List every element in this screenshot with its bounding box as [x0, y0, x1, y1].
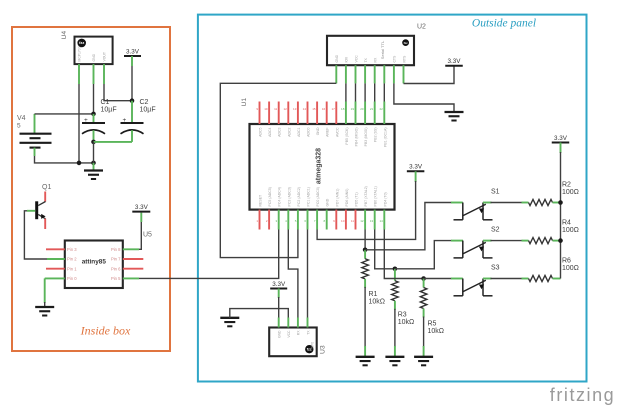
svg-text:R2: R2	[562, 182, 571, 189]
wire U2 pin2 to U1	[345, 83, 347, 101]
svg-text:+: +	[84, 117, 88, 124]
svg-text:15: 15	[312, 107, 316, 111]
wire U5 pin8 to 3.3V	[139, 214, 141, 249]
U1 top pin 2 (nc)	[268, 102, 270, 125]
svg-text:R3: R3	[398, 312, 407, 319]
svg-text:GND: GND	[335, 54, 339, 62]
U1 top pin 8 (nc)	[326, 102, 328, 125]
U1 bottom pin 12	[364, 210, 366, 230]
U1 top pin 11	[355, 102, 357, 125]
resistor R6 100 ohm	[529, 258, 579, 282]
svg-text:fritzing: fritzing	[550, 385, 615, 405]
wire U5 pin5 to U1 (serial)	[139, 230, 279, 279]
junction gnd rail / U4 pin1	[77, 161, 82, 166]
svg-text:C2: C2	[140, 99, 149, 106]
wire V4 plus to VIN node	[35, 113, 94, 115]
U1 top pin 12	[364, 102, 366, 125]
resistor R5 10k	[420, 279, 444, 336]
U1 top pin 13	[374, 102, 376, 125]
svg-text:ADC1: ADC1	[297, 127, 301, 136]
wire U1 pin to R3 row	[375, 230, 395, 269]
U3 pin 3 lead	[297, 318, 299, 328]
IC U1 atmega328	[250, 124, 395, 210]
svg-text:U4: U4	[61, 31, 68, 40]
IC U3	[269, 328, 317, 357]
wire U5 pin4 to ground	[44, 278, 46, 303]
wire U1 pin to R1	[364, 230, 366, 250]
U1 bottom pin 1	[259, 210, 261, 230]
svg-text:10kΩ: 10kΩ	[369, 299, 386, 306]
svg-text:AVCC: AVCC	[335, 127, 339, 137]
junction C2 top	[130, 98, 135, 103]
U1 bottom pin 8	[326, 210, 328, 230]
svg-text:12: 12	[283, 107, 287, 111]
svg-text:AREF: AREF	[326, 128, 330, 137]
svg-text:TX: TX	[364, 57, 368, 62]
svg-text:3.3V: 3.3V	[126, 48, 140, 55]
voltage regulator U4	[75, 37, 113, 65]
svg-text:19: 19	[351, 107, 355, 111]
svg-text:PD5 (T1): PD5 (T1)	[355, 192, 359, 206]
wire U2 pin7 to ground	[394, 83, 454, 112]
svg-text:PB7 (XTAL2): PB7 (XTAL2)	[364, 186, 368, 206]
U1 top pin 7 (nc)	[316, 102, 318, 125]
wire U2 pin1 to U1 serial	[220, 83, 336, 257]
svg-text:10µF: 10µF	[101, 106, 117, 113]
wire gnd stub	[93, 163, 95, 171]
U1 bottom pin 6	[307, 210, 309, 230]
U4 pin 2 lead	[93, 64, 95, 84]
svg-text:PD4 (T0): PD4 (T0)	[383, 192, 387, 206]
svg-text:RX: RX	[297, 330, 301, 335]
svg-text:PB5 (SCK): PB5 (SCK)	[345, 128, 349, 145]
IC U5 attiny85	[65, 241, 123, 289]
U1 top pin 5 (nc)	[297, 102, 299, 125]
wire U4 pin2 to node VIN	[93, 84, 95, 114]
wire 3.3V rail	[560, 143, 562, 154]
wire U1 pin to U3 pin3	[288, 230, 298, 318]
svg-text:+: +	[123, 117, 127, 124]
svg-text:R6: R6	[562, 258, 571, 265]
U1 top pin 4 (nc)	[287, 102, 289, 125]
svg-text:PD6 (AIN0): PD6 (AIN0)	[345, 189, 349, 207]
svg-text:ADC4: ADC4	[268, 127, 272, 136]
lead C2 top	[131, 101, 133, 123]
svg-text:Serial TTL: Serial TTL	[380, 40, 385, 59]
svg-text:14: 14	[303, 107, 307, 111]
U1 bottom pin 2	[268, 210, 270, 230]
wire 3.3V to U3 pin1	[278, 289, 280, 299]
switch S2	[454, 227, 500, 258]
svg-text:PC0 (ADC0): PC0 (ADC0)	[316, 187, 320, 206]
wire U4 pin1 to gnd rail	[78, 84, 80, 163]
wire U2 pin3 to U1	[355, 83, 357, 101]
U5 pin7 lead (nc)	[123, 258, 144, 260]
U1 bottom pin 5	[297, 210, 299, 230]
svg-text:U3: U3	[320, 345, 327, 354]
svg-text:PC1 (ADC1): PC1 (ADC1)	[307, 187, 311, 206]
svg-text:Outside panel: Outside panel	[472, 18, 536, 30]
power 3.3V (regulator output)	[124, 48, 141, 56]
ground (R1)	[356, 357, 375, 366]
svg-text:Inside box: Inside box	[80, 324, 131, 338]
wire 3.3V to U1 pin	[415, 171, 417, 182]
junction rail R2	[558, 200, 563, 205]
svg-text:20: 20	[360, 107, 364, 111]
svg-text:Pin 2: Pin 2	[67, 257, 77, 262]
ground (R3)	[385, 357, 404, 366]
svg-text:CTS: CTS	[393, 55, 397, 63]
svg-text:attiny85: attiny85	[82, 258, 107, 265]
svg-text:Pin 3: Pin 3	[67, 247, 77, 252]
svg-text:17: 17	[331, 107, 335, 111]
resistor R4 100 ohm	[529, 220, 579, 244]
svg-text:PB2 (SS): PB2 (SS)	[374, 128, 378, 143]
junction C1 bottom	[91, 140, 96, 145]
U1 bottom pin 13	[374, 210, 376, 230]
wire R1 node to S1	[365, 203, 452, 250]
svg-text:14: 14	[379, 219, 383, 223]
wire R5 to ground	[423, 317, 425, 348]
svg-text:TX: TX	[306, 330, 310, 335]
U1 bottom pin 9	[335, 210, 337, 230]
svg-text:100Ω: 100Ω	[562, 265, 579, 272]
U5 pin1 lead (nc)	[46, 248, 65, 250]
svg-text:10: 10	[264, 107, 268, 111]
U2 pin 6 lead	[383, 65, 385, 83]
svg-text:3.3V: 3.3V	[409, 164, 423, 171]
svg-text:U1: U1	[241, 98, 248, 107]
svg-text:GND: GND	[278, 330, 282, 338]
svg-text:10kΩ: 10kΩ	[428, 328, 445, 335]
battery V4	[17, 114, 52, 156]
ground (U3)	[220, 318, 239, 327]
wire U2 pin6 to U1	[383, 83, 385, 101]
U2 pin 8 lead	[403, 65, 405, 83]
outside panel frame	[198, 15, 587, 382]
U1 top pin 10	[345, 102, 347, 125]
U1 top pin 1 (nc)	[259, 102, 261, 125]
svg-text:5: 5	[17, 123, 21, 130]
inside box frame	[12, 27, 170, 351]
ground (U2)	[445, 112, 464, 121]
U1 bottom pin 7	[316, 210, 318, 230]
capacitor C2 10uF	[121, 99, 156, 142]
svg-text:11: 11	[274, 107, 277, 111]
svg-text:PC4 (ADC4): PC4 (ADC4)	[278, 187, 282, 206]
svg-text:R1: R1	[369, 291, 378, 298]
U2 pin 3 lead	[355, 65, 357, 83]
U1 top pin 9 (nc)	[335, 102, 337, 125]
U2 pin 5 lead	[374, 65, 376, 83]
svg-text:R5: R5	[428, 321, 437, 328]
U5 pin5 lead	[123, 277, 139, 279]
svg-text:GP0: GP0	[311, 342, 315, 349]
svg-text:PB6 (XTAL1): PB6 (XTAL1)	[374, 186, 378, 206]
U1 top pin 14	[383, 102, 385, 125]
wire S3 to resistor	[483, 278, 492, 280]
svg-text:fzz: fzz	[404, 41, 409, 45]
svg-text:VOUT: VOUT	[103, 52, 107, 61]
svg-text:PB4 (MISO): PB4 (MISO)	[355, 128, 359, 147]
svg-text:3.3V: 3.3V	[272, 281, 286, 288]
svg-text:VCC: VCC	[287, 330, 291, 338]
U3 pin 4 lead	[307, 318, 309, 328]
U3 pin 2 lead	[287, 318, 289, 328]
svg-text:RX: RX	[374, 57, 378, 62]
switch S3	[454, 265, 500, 296]
power 3.3V (U2)	[445, 58, 463, 66]
svg-text:R4: R4	[562, 220, 571, 227]
U1 bottom pin 4	[287, 210, 289, 230]
svg-text:10: 10	[341, 219, 345, 223]
svg-text:GND: GND	[92, 53, 96, 61]
svg-text:C1: C1	[101, 99, 110, 106]
junction gnd rail / C1 bottom	[91, 161, 96, 166]
wire U2 pin4 to U1	[364, 83, 366, 101]
svg-text:V4: V4	[17, 115, 26, 122]
svg-text:100Ω: 100Ω	[562, 227, 579, 234]
wire 3.3V to node C2 top	[131, 56, 133, 66]
svg-text:PD7 (AIN1): PD7 (AIN1)	[335, 189, 339, 207]
ground (battery rail)	[84, 171, 103, 180]
svg-text:IO6: IO6	[345, 57, 349, 63]
U3 pin 1 lead	[278, 318, 280, 328]
svg-text:10µF: 10µF	[140, 106, 156, 113]
wire R1 to ground	[364, 287, 366, 347]
svg-text:3.3V: 3.3V	[554, 135, 568, 142]
svg-text:ADC2: ADC2	[287, 127, 291, 136]
wire R5 node to S3	[424, 278, 452, 280]
power 3.3V (U5)	[132, 204, 150, 212]
svg-text:Pin 8: Pin 8	[111, 247, 121, 252]
wire U1 pin to U3 pin4	[307, 230, 309, 318]
U5 pin3 lead (nc)	[46, 268, 65, 270]
U5 pin6 lead (nc)	[123, 268, 144, 270]
svg-text:MCP1700: MCP1700	[78, 46, 82, 61]
U5 pin4 lead	[45, 277, 65, 279]
svg-text:ADC5: ADC5	[259, 127, 263, 136]
svg-text:PB3 (MOSI): PB3 (MOSI)	[364, 128, 368, 147]
junction R3 top	[393, 267, 398, 272]
junction VIN at C1	[91, 112, 96, 117]
wire ground to U3 pin2	[230, 309, 288, 318]
U1 top pin 6 (nc)	[307, 102, 309, 125]
svg-text:Pin 0: Pin 0	[67, 276, 77, 281]
wire U2 pin8 to 3.3V	[404, 66, 455, 84]
power 3.3V (U3)	[270, 281, 287, 289]
svg-text:10kΩ: 10kΩ	[398, 319, 415, 326]
U1 bottom pin 11	[355, 210, 357, 230]
svg-text:GND: GND	[316, 127, 320, 135]
svg-text:3.3V: 3.3V	[448, 58, 462, 65]
svg-text:PC5 (ADC5): PC5 (ADC5)	[268, 187, 272, 206]
wire S2 to resistor	[483, 240, 492, 242]
transistor Q1	[27, 184, 51, 229]
svg-text:RESET: RESET	[259, 194, 263, 207]
wire S1 to resistor	[483, 202, 492, 204]
ground (U5)	[35, 307, 54, 316]
resistor R3 10k	[392, 269, 415, 326]
svg-text:U2: U2	[417, 24, 426, 31]
U2 pin 4 lead	[364, 65, 366, 83]
svg-text:Q1: Q1	[42, 184, 51, 191]
svg-text:100Ω: 100Ω	[562, 189, 579, 196]
U1 top pin 3 (nc)	[278, 102, 280, 125]
U4 pin 1 lead	[78, 64, 80, 84]
U5 pin2 lead	[47, 258, 65, 260]
IC U2 serial TTL module	[327, 36, 414, 65]
wire U2 pin5 to U1	[374, 83, 376, 101]
svg-text:13: 13	[370, 219, 374, 223]
svg-text:PC3 (ADC3): PC3 (ADC3)	[287, 187, 291, 206]
svg-text:ADC0: ADC0	[307, 127, 311, 136]
power 3.3V (U1 vcc)	[407, 164, 425, 172]
U1 bottom pin 14	[383, 210, 385, 230]
U2 pin 7 lead	[393, 65, 395, 83]
svg-text:Pin 6: Pin 6	[111, 266, 121, 271]
switch S1	[454, 189, 500, 220]
wire C1 bottom to gnd rail	[93, 142, 95, 163]
svg-text:GND: GND	[326, 198, 330, 206]
power 3.3V (buttons)	[552, 135, 570, 143]
resistor R2 100 ohm	[529, 182, 579, 206]
wire R3 to ground	[394, 309, 396, 347]
svg-text:18: 18	[341, 107, 345, 111]
U2 pin 2 lead	[345, 65, 347, 83]
U1 bottom pin 10	[345, 210, 347, 230]
svg-text:RTS: RTS	[402, 55, 406, 62]
svg-text:11: 11	[351, 219, 354, 223]
svg-text:22: 22	[379, 107, 383, 111]
svg-text:PC2 (ADC2): PC2 (ADC2)	[297, 187, 301, 206]
svg-text:PB1 (OC1A): PB1 (OC1A)	[383, 128, 387, 147]
svg-text:S3: S3	[491, 265, 500, 272]
svg-text:Pin 7: Pin 7	[111, 257, 121, 262]
svg-text:Pin 1: Pin 1	[67, 266, 77, 271]
U1 bottom pin 3	[278, 210, 280, 230]
svg-text:fzz: fzz	[79, 40, 84, 45]
wire R3 node to S2	[395, 241, 452, 269]
junction rail R4	[558, 238, 563, 243]
svg-text:U5: U5	[143, 232, 152, 239]
svg-text:16: 16	[322, 107, 326, 111]
svg-text:12: 12	[360, 219, 364, 223]
svg-text:atmega328: atmega328	[316, 148, 323, 184]
svg-text:3.3V: 3.3V	[135, 204, 149, 211]
resistor R1 10k	[362, 250, 385, 306]
svg-text:21: 21	[370, 107, 374, 111]
svg-text:VCC: VCC	[354, 55, 358, 63]
svg-text:Pin 5: Pin 5	[111, 276, 121, 281]
svg-text:ADC3: ADC3	[278, 127, 282, 136]
wire C1 bottom to C2 bottom	[94, 141, 133, 143]
wire V4 minus to gnd rail	[35, 156, 94, 163]
capacitor C1 10uF	[82, 99, 117, 142]
junction R1 top	[363, 248, 368, 253]
ground (R5)	[414, 357, 433, 366]
U4 pin 3 lead	[103, 64, 105, 84]
wire Q1 base to U5 pin2	[24, 211, 47, 259]
svg-text:13: 13	[293, 107, 297, 111]
svg-text:S2: S2	[491, 227, 500, 234]
U5 pin8 lead	[123, 248, 139, 250]
svg-text:S1: S1	[491, 189, 500, 196]
U2 pin 1 lead	[335, 65, 337, 83]
junction R5 top	[421, 276, 426, 281]
wire U1 pin to R5 row	[384, 230, 423, 279]
wire U4 pin3 to node 3.3V	[104, 84, 132, 101]
